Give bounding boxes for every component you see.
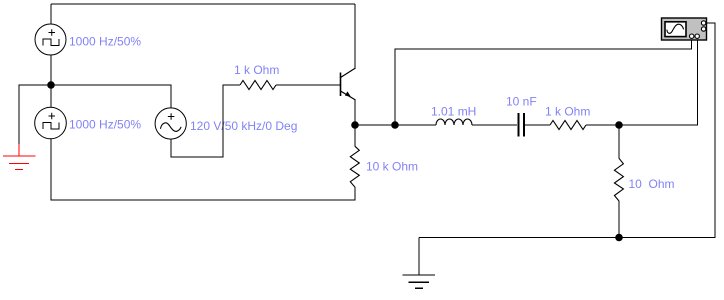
svg-text:1 k Ohm: 1 k Ohm [545,105,590,119]
svg-text:10 Ohm: 10 Ohm [629,177,675,191]
svg-text:1.01 mH: 1.01 mH [431,105,476,119]
wire node C to scope input A [395,40,692,125]
wire L1 to C1 [472,124,517,126]
source V3 [155,108,186,139]
source V1 [35,24,66,55]
wire R1 to base [276,84,340,86]
wire V3 to R1 [171,85,240,157]
wire node D to scope input B [619,40,698,125]
wire bottom left rail [51,139,355,201]
wire V1 top lead [50,4,52,24]
inductor L1 [436,119,472,125]
wire node A to V3 [51,85,171,108]
svg-text:1000 Hz/50%: 1000 Hz/50% [69,118,141,132]
capacitor C1 [519,113,525,137]
wire node A to V2 [50,85,52,108]
svg-text:10 k Ohm: 10 k Ohm [366,160,418,174]
node C [391,121,399,129]
resistor R4 10 Ohm [614,125,623,238]
svg-text:10 nF: 10 nF [506,95,537,109]
oscilloscope XSC1 [662,18,707,40]
resistor R2 10k [350,125,359,187]
wire R3 to node D [586,124,619,126]
wire C1 to R3 [525,124,550,126]
wire V1 to node A [50,55,52,85]
node E [615,234,623,242]
resistor R1 [240,81,276,90]
wire node C to L1 [395,124,436,126]
wire node A to ground [19,85,51,144]
wire collector lead [354,4,356,68]
node D [615,121,623,129]
wire top rail [51,3,355,5]
wire emitter lead [354,100,356,125]
transistor Q1 [341,68,356,100]
node A [47,81,55,89]
ground GND1 [3,144,36,170]
source V2 [35,107,67,139]
svg-text:1000 Hz/50%: 1000 Hz/50% [69,35,141,49]
wire node B to node C [355,124,395,126]
wire bottom right rail [419,23,715,238]
ground GND2 [403,238,436,289]
node B [351,121,359,129]
resistor R3 [550,121,586,130]
svg-text:1 k Ohm: 1 k Ohm [234,63,279,77]
svg-text:120 V/50 kHz/0 Deg: 120 V/50 kHz/0 Deg [190,119,297,133]
